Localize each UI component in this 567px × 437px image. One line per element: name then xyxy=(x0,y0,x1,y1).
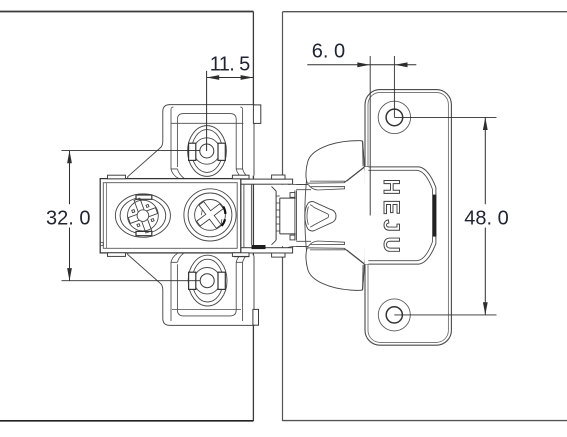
svg-text:HEJU: HEJU xyxy=(379,179,404,258)
svg-text:6. 0: 6. 0 xyxy=(312,41,345,63)
svg-text:32. 0: 32. 0 xyxy=(46,207,90,229)
svg-text:48. 0: 48. 0 xyxy=(464,207,508,229)
svg-text:11. 5: 11. 5 xyxy=(210,53,250,75)
